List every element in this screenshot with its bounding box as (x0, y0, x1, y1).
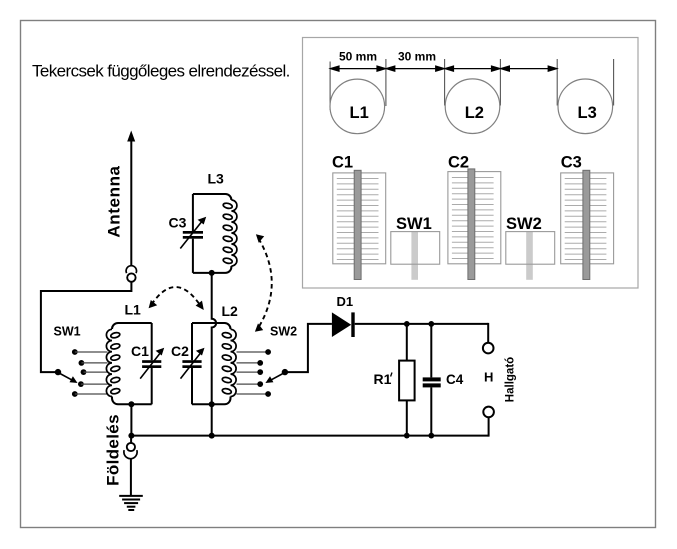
wire ground bus to connector (130, 436, 132, 444)
label R1 prime mark (391, 373, 392, 377)
dimension extension line right of L2 (499, 59, 501, 106)
junction dot top bus at C4 (428, 321, 434, 327)
terminal H top circle (483, 343, 494, 354)
svg-text:L3: L3 (208, 171, 225, 187)
antenna arrow (127, 131, 135, 266)
junction dot ground bus left (128, 433, 134, 439)
svg-text:C1: C1 (131, 343, 149, 359)
svg-text:L3: L3 (578, 104, 597, 122)
wire L3 to ground bus with hop over L2 top (212, 273, 216, 404)
capacitor C1 (variable) (140, 323, 164, 404)
ground connector plug circle (127, 443, 135, 451)
svg-text:Tekercsek függőleges elrendezé: Tekercsek függőleges elrendezéssel. (32, 62, 290, 81)
junction dot top bus at R1 (404, 321, 410, 327)
wire connector to earth (130, 458, 132, 495)
inductor L1 coil loops (106, 329, 120, 396)
coil circle L3 (top view) (558, 79, 613, 134)
junction dot ground bus at R1 (404, 433, 410, 439)
svg-text:SW2: SW2 (270, 325, 297, 339)
svg-text:L2: L2 (222, 303, 239, 319)
coupling arrow L3-SW2 (dashed) (255, 234, 272, 331)
capacitor C1 body (inset, striped) (333, 170, 386, 279)
svg-text:R1: R1 (374, 371, 392, 387)
svg-text:30 mm: 30 mm (398, 50, 436, 64)
svg-text:SW2: SW2 (506, 215, 542, 233)
dimension arrow over L2 (445, 66, 500, 71)
svg-text:Antenna: Antenna (105, 165, 124, 237)
capacitor C2 (variable) (181, 323, 205, 404)
svg-text:Földelés: Földelés (104, 414, 123, 486)
coupling arrow L1-L2 (dashed) (149, 287, 204, 310)
wire top bus to H terminal (487, 323, 489, 343)
capacitor C3 (variable) (180, 194, 206, 273)
svg-text:H: H (484, 370, 493, 385)
ground bus wire (131, 435, 488, 437)
svg-text:C2: C2 (171, 343, 189, 359)
svg-text:L1: L1 (350, 104, 369, 122)
dimension arrow 50mm over L1 (330, 66, 385, 71)
coil circle L2 (top view) (445, 79, 500, 134)
dimension arrow gap L2-L3 (501, 66, 557, 71)
svg-text:SW1: SW1 (54, 325, 81, 339)
inductor L3 coil loops (223, 200, 237, 266)
svg-text:L1: L1 (125, 302, 142, 318)
switch SW2 wiper arrow (265, 373, 284, 383)
capacitor C4 (423, 324, 441, 436)
antenna connector socket arc (126, 266, 136, 273)
switch SW1 wiper arrow (59, 373, 78, 383)
coil circle L1 (top view) (330, 79, 385, 134)
wire diode to headphone terminal (top bus) (355, 323, 489, 325)
junction dot L1 bottom to ground (128, 401, 134, 407)
dimension extension line left of L2 (444, 59, 446, 106)
inductor L2 coil loops (222, 329, 236, 396)
inductor L3 frame (193, 194, 232, 273)
capacitor C2 body (inset, striped) (448, 169, 501, 280)
svg-text:D1: D1 (337, 294, 354, 309)
junction dot L2 bottom / L3 wire (209, 401, 215, 407)
svg-text:C3: C3 (561, 154, 582, 172)
switch SW1 pole (55, 369, 61, 375)
dimension arrow 30mm gap L1-L2 (386, 66, 444, 71)
switch SW1 contact dots (72, 349, 87, 397)
wire L1 bottom to ground bus (130, 404, 132, 435)
svg-text:50 mm: 50 mm (339, 50, 377, 64)
svg-text:C3: C3 (169, 215, 187, 231)
junction dot ground bus at C4 (428, 433, 434, 439)
wire SW2 pole to diode (285, 324, 332, 372)
switch SW2 contact dots (257, 349, 271, 397)
switch SW2 pole (282, 369, 288, 375)
wire H bottom to ground bus (488, 417, 490, 436)
antenna connector plug circle (127, 273, 135, 281)
wire antenna connector to SW1 pole (41, 282, 131, 373)
capacitor C3 body (inset, striped) (561, 170, 614, 279)
ground connector socket arc (124, 450, 137, 459)
svg-text:C2: C2 (448, 154, 469, 172)
junction dot ground bus at L2 (209, 433, 215, 439)
switch SW2 tap wires from L2 (237, 352, 269, 394)
switch SW1 body (inset) (391, 232, 440, 280)
dimension extension line left of L1 (329, 62, 331, 111)
svg-text:Hallgató: Hallgató (505, 357, 517, 402)
switch SW2 body (inset) (506, 232, 555, 280)
junction dot L3 bottom (209, 270, 215, 276)
ground symbol (119, 496, 143, 510)
svg-text:L2: L2 (465, 104, 484, 122)
terminal H bottom circle (483, 407, 494, 418)
svg-text:SW1: SW1 (396, 215, 432, 233)
svg-text:C4: C4 (446, 372, 464, 387)
dimension extension line right of L3 (613, 59, 615, 106)
resistor R1 (399, 324, 415, 436)
dimension extension line left of L3 (556, 59, 558, 106)
inductor L2 frame (192, 323, 231, 404)
switch SW1 tap wires to L1 (75, 352, 108, 394)
inset panel frame (303, 38, 639, 289)
wire L2 bottom to ground bus (211, 404, 213, 435)
inductor L1 frame (112, 323, 152, 404)
diode D1 (332, 312, 355, 337)
svg-text:C1: C1 (332, 154, 353, 172)
dimension extension line right of L1 (385, 59, 387, 106)
